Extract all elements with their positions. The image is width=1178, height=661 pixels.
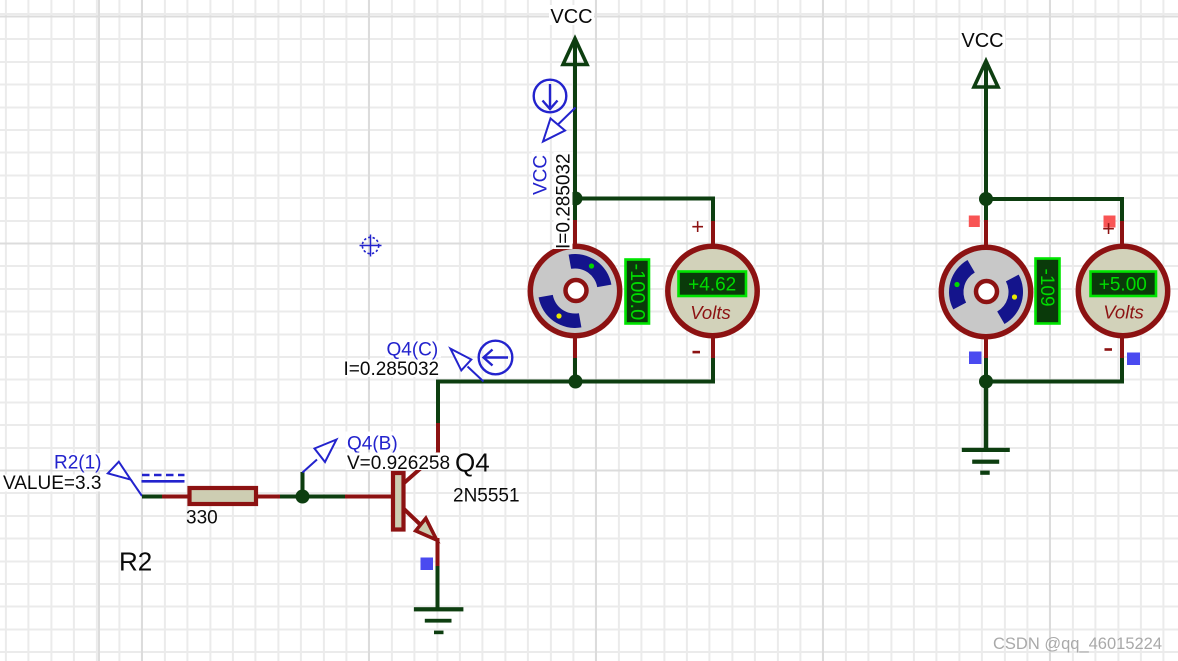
wire VCC down to left top node [573, 41, 577, 222]
dc generator marker (dashed + solid line) [142, 475, 185, 481]
current probe VCC : value I=0.285032 (vertical) [554, 152, 575, 249]
svg-text:CSDN @qq_46015224: CSDN @qq_46015224 [993, 635, 1162, 653]
dc motor (left) rotor arcs [539, 254, 612, 328]
svg-text:330: 330 [186, 508, 218, 529]
voltage probe R2(1) : pointer arrow [108, 462, 142, 496]
svg-text:Q4(C): Q4(C) [387, 340, 439, 361]
svg-text:+4.62: +4.62 [688, 275, 736, 296]
pin stub: right voltmeter bottom [1120, 336, 1124, 359]
resistor R2 left pin [162, 495, 190, 499]
svg-text:V=0.926258: V=0.926258 [347, 453, 450, 474]
voltage probe R2(1) : value VALUE=3.3 [2, 473, 104, 494]
svg-text:-100.0: -100.0 [626, 264, 648, 321]
logic state square (right voltmeter bottom, blue) [1127, 353, 1140, 366]
transistor reference Q4 [455, 448, 490, 478]
pin stub: left motor bottom [573, 336, 577, 359]
pin stub: left voltmeter top [711, 221, 715, 248]
wire left bottom rail: collector corner to voltmeter [438, 358, 713, 425]
voltmeter (right) Volts label [1103, 302, 1143, 323]
current probe Q4(C) : value I=0.285032 [342, 359, 441, 380]
power symbol VCC (right) [974, 61, 998, 87]
svg-text:Q4: Q4 [455, 448, 490, 478]
logic state square (right motor bottom, blue) [969, 352, 982, 365]
svg-text:VCC: VCC [531, 155, 552, 195]
svg-text:Q4(B): Q4(B) [347, 434, 398, 455]
transistor part number 2N5551 [453, 486, 520, 507]
wire resistor to transistor base [280, 495, 347, 499]
resistor reference R2 [119, 547, 152, 577]
power symbol VCC (left) [563, 39, 587, 65]
dc motor (left) speed display -100.0 [626, 260, 650, 324]
svg-text:Volts: Volts [1103, 302, 1143, 323]
voltmeter (left) Volts label [690, 302, 730, 323]
current probe VCC : pointer arrow [543, 108, 576, 142]
svg-text:+: + [1102, 216, 1115, 241]
junction node (left bottom) [569, 375, 583, 389]
svg-text:2N5551: 2N5551 [453, 486, 520, 507]
wire left motor bottom to bottom rail [573, 358, 577, 382]
current probe Q4(C) : pointer arrow [450, 349, 483, 382]
transistor Q4 collector diagonal [404, 453, 438, 483]
junction node (right bottom) [979, 375, 993, 389]
wire right bottom rail [986, 358, 1122, 382]
current probe VCC : name label (vertical) [531, 152, 552, 196]
pin stub: right motor bottom [984, 337, 988, 359]
transistor Q4 emitter pin [436, 538, 440, 568]
current probe Q4(C) : circle with left arrow [479, 341, 513, 375]
voltmeter (left) minus terminal label [693, 351, 701, 354]
logic state square (right voltmeter top, red) [1104, 216, 1116, 228]
svg-text:-109: -109 [1036, 269, 1057, 307]
resistor value 330 [186, 508, 218, 529]
wire VCC down to right top node [984, 63, 988, 222]
dc motor (left) shaft [566, 280, 587, 301]
svg-text:R2(1): R2(1) [54, 453, 102, 474]
junction node at R2/base [296, 490, 310, 504]
wire right top rail [986, 199, 1122, 223]
svg-text:VALUE=3.3: VALUE=3.3 [3, 473, 101, 494]
svg-text:VCC: VCC [961, 30, 1003, 52]
resistor R2 body [190, 488, 257, 504]
ground (left) [414, 607, 464, 634]
dc motor (right) speed display -109 [1036, 259, 1060, 324]
voltage probe Q4(B) : value V=0.926258 [346, 453, 454, 475]
resistor R2 right pin [256, 495, 282, 499]
dc motor (right) shaft [976, 281, 997, 302]
voltage probe R2(1) : name label [53, 453, 104, 474]
pin stub: left voltmeter bottom [711, 336, 715, 359]
voltmeter (left) body [668, 246, 757, 335]
transistor Q4 emitter diagonal [404, 509, 426, 530]
origin / no-connect marker [360, 235, 382, 257]
wire left end to resistor R2 [142, 495, 164, 499]
junction node (right top) [979, 192, 993, 206]
junction node (left top) [569, 192, 583, 206]
logic state square (right motor top, red) [969, 216, 980, 228]
voltage probe Q4(B) : name label [346, 432, 400, 455]
svg-text:I=0.285032: I=0.285032 [344, 359, 440, 380]
pin stub: right motor top [984, 220, 988, 248]
svg-text:I=0.285032: I=0.285032 [554, 153, 575, 249]
svg-text:+: + [691, 214, 704, 239]
transistor Q4 emitter arrow [416, 518, 437, 540]
voltmeter (right) display +5.00 [1091, 272, 1157, 297]
voltmeter (right) body [1078, 246, 1167, 335]
transistor Q4 base bar [393, 473, 404, 530]
voltmeter (right) plus terminal label [1102, 216, 1115, 241]
dc motor (left) body [530, 246, 619, 335]
svg-text:R2: R2 [119, 547, 152, 577]
pin stub: left motor top [573, 220, 577, 248]
pin stub: right voltmeter top [1120, 221, 1124, 248]
voltmeter (left) plus terminal label [691, 214, 704, 239]
power label VCC (right) [960, 30, 1005, 52]
voltage probe Q4(B) : stub wire [301, 472, 305, 496]
ground (right) [962, 448, 1010, 475]
svg-text:Volts: Volts [690, 302, 730, 323]
watermark [993, 635, 1162, 653]
transistor Q4 base pin [345, 495, 391, 499]
current probe Q4(C) : name label [385, 340, 441, 361]
voltmeter (left) display +4.62 [679, 272, 747, 297]
wire left top rail: node to voltmeter corner [575, 199, 713, 224]
transistor Q4 collector wire [436, 423, 440, 455]
svg-text:VCC: VCC [550, 6, 592, 28]
dc motor (right) body [941, 247, 1030, 336]
wire right node to ground [984, 382, 989, 450]
logic state square (emitter, blue) [421, 558, 434, 571]
current probe VCC : circle with down arrow [534, 80, 567, 113]
dc motor (right) rotor arcs [949, 260, 1023, 324]
voltmeter (right) minus terminal label [1105, 348, 1113, 351]
wire emitter to ground [436, 566, 440, 609]
power label VCC (left) [549, 5, 594, 28]
voltage probe Q4(B) : pointer arrow [303, 440, 337, 473]
svg-text:+5.00: +5.00 [1099, 275, 1147, 296]
